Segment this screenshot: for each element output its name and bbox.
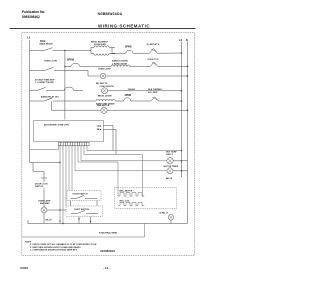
row1 thermal fuse bump xyxy=(126,50,150,53)
row1 wire L1 to coil xyxy=(30,50,45,52)
junction row3-L2 xyxy=(181,90,183,92)
element row branch from row1 xyxy=(64,51,66,120)
clock wire to N xyxy=(173,170,188,172)
row3 wire from L1 xyxy=(30,90,38,92)
lamp stair xyxy=(33,163,44,178)
oven light lamp xyxy=(100,73,106,79)
L1 drop to lamp circuit xyxy=(30,162,61,164)
junction h1-L2 xyxy=(181,150,183,152)
chassis line xyxy=(22,224,145,238)
L1 bus xyxy=(29,40,31,163)
light switch blade xyxy=(71,211,85,214)
lamp leg xyxy=(170,220,172,223)
door box legs xyxy=(70,201,72,207)
harness wire 2 xyxy=(84,146,142,196)
svg-text:316080810: 316080810 xyxy=(100,249,115,253)
row1 relay switch xyxy=(44,48,53,51)
svg-text:N.O. 550F: N.O. 550F xyxy=(148,92,158,94)
N bus xyxy=(187,42,189,224)
row2 switch xyxy=(45,67,54,70)
svg-text:NOTE:: NOTE: xyxy=(25,241,32,243)
bake element coil xyxy=(111,65,130,67)
row4 wire from L1 xyxy=(30,100,45,102)
oven lamp xyxy=(41,207,47,213)
row4 switch xyxy=(44,98,53,101)
element row switch xyxy=(151,62,158,66)
harness wire 4 xyxy=(78,146,118,190)
row4 wire xyxy=(115,100,124,102)
thermal cutout bump xyxy=(71,63,111,66)
svg-text:LIGHT SWITCH: LIGHT SWITCH xyxy=(74,209,90,211)
svg-text:CONV MOTOR: CONV MOTOR xyxy=(100,86,115,88)
svg-text:L2: L2 xyxy=(179,38,183,42)
svg-text:N: N xyxy=(186,38,188,42)
junction element branch xyxy=(64,66,65,67)
junction harness9-rail xyxy=(62,223,63,224)
pin stub 1B xyxy=(103,130,116,155)
latch feed wire right xyxy=(142,195,144,197)
row3 relay bump xyxy=(64,87,83,90)
svg-text:OVEN TCO: OVEN TCO xyxy=(148,59,159,61)
junction branch-N xyxy=(187,109,189,111)
branch wire to N xyxy=(107,109,187,111)
svg-text:03/02: 03/02 xyxy=(20,266,28,270)
svg-text:- 12 -: - 12 - xyxy=(103,266,110,270)
L2 bus xyxy=(181,42,183,178)
wire to lamp xyxy=(43,188,45,207)
row2 wire to N xyxy=(106,75,188,77)
junction element-N xyxy=(187,66,189,68)
svg-text:AT SELF TIME SKIP: AT SELF TIME SKIP xyxy=(35,78,55,81)
svg-text:BROIL 3400W: BROIL 3400W xyxy=(98,95,112,98)
electronic oven control box xyxy=(34,121,104,142)
svg-text:FAN MOTOR: FAN MOTOR xyxy=(97,104,110,107)
svg-text:OVEN LAMP: OVEN LAMP xyxy=(38,200,51,203)
row1 thermal switch xyxy=(150,49,158,54)
svg-text:OVEN LIGHT: OVEN LIGHT xyxy=(98,69,111,71)
junction harness10-rail xyxy=(59,220,60,221)
door switch box xyxy=(67,191,101,201)
svg-text:WIRING SCHEMATIC: WIRING SCHEMATIC xyxy=(98,24,150,29)
harness wire 3 xyxy=(81,146,167,161)
svg-text:40W MAX: 40W MAX xyxy=(40,202,50,205)
motor branch from row4 xyxy=(52,101,101,110)
lamp leg to rail xyxy=(43,213,45,224)
junction lamp row xyxy=(59,209,60,210)
harness wire 5 xyxy=(75,146,167,171)
schematic border frame xyxy=(22,33,195,256)
svg-text:BK-18: BK-18 xyxy=(46,220,53,222)
svg-text:N IND LT: N IND LT xyxy=(160,212,169,214)
svg-text:L1: L1 xyxy=(27,36,31,40)
cooling fan motor xyxy=(101,107,107,113)
row1 parallel element upper coil xyxy=(91,46,115,51)
latch motor box xyxy=(115,188,177,209)
svg-text:L CONTACT MODE: L CONTACT MODE xyxy=(35,81,54,84)
row2 elbow down xyxy=(88,70,100,76)
element row wire to switch xyxy=(130,66,150,68)
harness wire 8 xyxy=(65,146,67,206)
svg-text:120VAC: 120VAC xyxy=(128,88,136,91)
svg-text:BAKE RELAY 1K2: BAKE RELAY 1K2 xyxy=(41,95,60,98)
svg-text:DLB: DLB xyxy=(40,39,45,43)
svg-text:1B ▶: 1B ▶ xyxy=(97,128,102,131)
latch feed wire left xyxy=(117,190,119,196)
connector bar under control xyxy=(58,142,89,146)
svg-text:NGB58W2ADA: NGB58W2ADA xyxy=(98,12,123,16)
door lock terminal xyxy=(41,177,47,179)
svg-text:N NEUTRAL WIRE: N NEUTRAL WIRE xyxy=(99,231,118,234)
svg-text:3. COMPONENTS SHOWN AT ROOM T: 3. COMPONENTS SHOWN AT ROOM TEMP SET xyxy=(30,249,78,252)
svg-text:IND LT: IND LT xyxy=(167,154,174,156)
svg-text:5995398462: 5995398462 xyxy=(22,15,40,19)
latch coil 2 xyxy=(118,202,144,205)
harness wire 10 xyxy=(59,146,61,224)
harness wire 6 xyxy=(71,146,73,191)
alarm indicator xyxy=(167,158,173,164)
row3 switch 1 xyxy=(37,87,46,90)
latch coil 1 xyxy=(118,193,144,196)
junction row4-L2 xyxy=(181,100,183,102)
svg-text:Publication No.: Publication No. xyxy=(22,10,45,14)
neutral rail xyxy=(28,220,188,224)
junction L1 drop xyxy=(59,162,60,163)
lamp row to switches xyxy=(47,209,66,211)
alarm wire to N xyxy=(173,160,187,162)
harness wire to L1 xyxy=(30,146,59,150)
pin stub 1A xyxy=(103,126,113,151)
svg-text:2. SWITCHES SHOWN DOOR CLOSED: 2. SWITCHES SHOWN DOOR CLOSED AND READY xyxy=(30,246,81,249)
element row wire xyxy=(65,66,71,68)
row4 bump xyxy=(124,98,151,101)
neutral indicator lamp xyxy=(168,215,174,221)
row1 merge to right xyxy=(112,47,126,53)
svg-text:3P4W: 3P4W xyxy=(125,46,132,49)
svg-text:BK-WHT 18: BK-WHT 18 xyxy=(96,83,108,85)
svg-text:2P6W: 2P6W xyxy=(67,58,75,62)
row4 switch 2 xyxy=(151,97,159,101)
harness wire 9 xyxy=(62,146,64,224)
light switch box xyxy=(66,206,103,217)
harness wire 7 xyxy=(68,146,70,191)
svg-text:OVEN LT SW: OVEN LT SW xyxy=(44,61,57,63)
junction light switch legs xyxy=(78,218,79,219)
convection motor xyxy=(102,88,108,94)
header rule xyxy=(10,28,196,30)
svg-text:BK-18: BK-18 xyxy=(166,178,173,180)
svg-text:SWITCH: SWITCH xyxy=(35,186,44,188)
svg-text:MOTOR TIMER: MOTOR TIMER xyxy=(164,166,179,168)
bake coil xyxy=(96,99,115,101)
light box legs to rail xyxy=(78,217,80,224)
svg-text:BAKE RELAY: BAKE RELAY xyxy=(40,42,54,45)
svg-text:2P8W: 2P8W xyxy=(125,94,132,97)
door switch blade xyxy=(71,196,85,199)
clock motor xyxy=(167,168,173,174)
harness wire 1 xyxy=(87,146,182,151)
svg-text:1A ▶: 1A ▶ xyxy=(97,124,102,127)
svg-text:1. CHECK OVEN OPT ALL CAPABLE: 1. CHECK OVEN OPT ALL CAPABLE OF 15 AT O… xyxy=(30,243,97,246)
row1 parallel element lower coil xyxy=(91,51,115,56)
row3 wire to L2 xyxy=(108,90,182,92)
svg-text:ELECTRONIC OVEN CTRL: ELECTRONIC OVEN CTRL xyxy=(44,124,70,126)
svg-text:H LIMIT-AT S: H LIMIT-AT S xyxy=(147,43,160,46)
row2 wire from L1 xyxy=(30,69,46,71)
junction row1-L2 xyxy=(181,52,183,54)
svg-text:BAKE HI 2585W: BAKE HI 2585W xyxy=(112,60,128,63)
svg-text:DOOR SWITCH: DOOR SWITCH xyxy=(73,193,89,195)
junction row2-N xyxy=(187,75,189,77)
